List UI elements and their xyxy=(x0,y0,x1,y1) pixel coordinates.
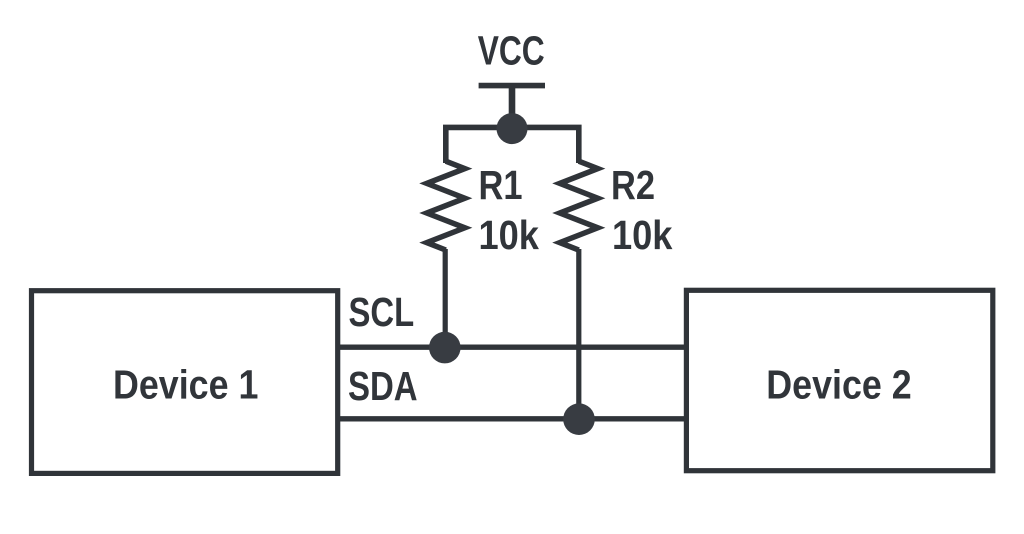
svg-text:VCC: VCC xyxy=(478,28,545,74)
svg-text:SDA: SDA xyxy=(348,364,418,409)
wire: R2 lead down through SCL to SDA xyxy=(576,249,581,412)
wire: R1 lead down to SCL xyxy=(443,249,448,340)
VCC power bar xyxy=(479,83,545,89)
wire: VCC stem xyxy=(509,86,516,126)
svg-text:R1: R1 xyxy=(479,162,523,207)
svg-text:Device 2: Device 2 xyxy=(766,362,911,408)
svg-text:R2: R2 xyxy=(611,162,655,207)
junction dot: VCC node xyxy=(497,113,528,144)
junction dot: SCL node xyxy=(429,332,461,364)
svg-text:Device 1: Device 1 xyxy=(113,362,258,408)
device 2 box xyxy=(686,290,992,470)
svg-text:10k: 10k xyxy=(479,213,540,258)
junction dot: SDA node xyxy=(563,403,595,435)
resistor R1 xyxy=(427,161,465,250)
resistor R2 xyxy=(560,161,598,250)
svg-text:10k: 10k xyxy=(612,213,673,258)
wire: SDA bus line xyxy=(338,416,687,421)
svg-text:SCL: SCL xyxy=(349,290,415,335)
wire: SCL bus line xyxy=(338,345,687,350)
device 1 box xyxy=(32,291,338,474)
wire: top rail with drops to R1 and R2 xyxy=(446,127,579,163)
